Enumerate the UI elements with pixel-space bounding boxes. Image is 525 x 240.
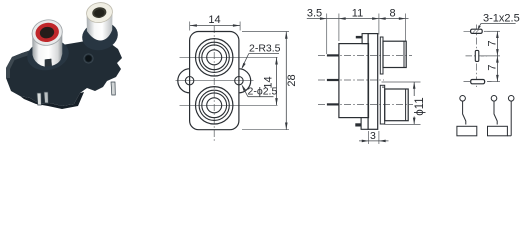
svg-text:ϕ11: ϕ11 [414,97,426,115]
photo body lower shade [20,92,84,109]
white jack hole inner dark [94,8,106,17]
white jack shell (cylinder) [87,11,113,41]
label 2-R3.5 leader [241,54,279,70]
dim 14 top: arrows [190,24,240,27]
side dim ext line barrel tip [405,14,407,42]
svg-text:8: 8 [389,8,395,20]
svg-text:7: 7 [486,40,498,46]
bottom jack circle inner [207,98,222,113]
front body rounded rect [190,32,239,130]
phi11 text (rotated) [413,96,425,117]
side pin 3 (solid) [327,103,339,105]
label 3-1x2.5 underline [481,23,516,25]
bottom jack circle outer [196,87,233,124]
side top barrel tip line [403,41,405,67]
terminal circle 3 [508,96,514,102]
wire 3 [510,101,512,136]
svg-text:3.5: 3.5 [307,8,322,20]
top jack circle outer [196,39,233,76]
photo center hole rim [84,54,93,63]
side dim ext line body left [338,14,340,42]
white jack hole [91,6,107,19]
side T-stub (solid) [356,36,362,39]
side body rect [339,44,369,118]
pin layout horizontal centerline pin2 [466,55,488,57]
pin3 cross-section (flat) [471,80,485,84]
right mounting hole [235,77,243,85]
side pin 2 (solid) [327,79,339,81]
pin1 cross-section (flat) [471,29,483,33]
svg-text:3-1x2.5: 3-1x2.5 [483,13,520,25]
phi11 ext line top [382,81,421,83]
dim 28 right arrows [285,32,288,130]
phi11 dim line [413,82,415,124]
photo boss / collar under white jack [79,19,120,54]
side top barrel [383,41,406,67]
centerline horizontal bottom circle / ext line 14 [180,104,278,106]
red jack bottom notch [45,59,52,67]
dim 7 ext lines [484,30,500,32]
dim 28 right: ext lines [242,31,289,33]
dim 3 bottom dim line [359,140,389,142]
centerline vertical left hole [189,71,191,92]
pin layout horizontal centerline pin1 [464,30,491,32]
centerline vertical right hole [238,71,240,92]
photo body top edge highlight [12,50,33,60]
dim 14 top: dim line [190,25,240,27]
side dim ext line flange right [378,14,380,35]
dim 14 right arrows [275,57,278,105]
side centerline pin3 [318,103,418,105]
top jack circle ring2 [199,42,229,72]
red jack red ring [34,21,61,44]
centerline vertical front view [213,26,215,143]
side post below body [361,118,368,130]
left mounting hole [185,77,193,85]
switch wire 2 [494,101,497,124]
dim 3 arrows (outside) [362,140,369,143]
side bottom barrel [385,89,409,121]
svg-text:2-R3.5: 2-R3.5 [249,43,281,55]
side post nub (solid) [355,123,361,126]
centerline horizontal ears [176,80,254,82]
pin2 cross-section (vertical) [475,50,479,61]
jack box 1 [457,126,477,136]
side centerline pin2 [318,79,384,81]
side bottom collar inner step [382,86,385,88]
top jack circle inner [207,50,222,65]
photo body (black plastic base plate) [6,39,122,106]
side bottom collar [380,85,384,124]
svg-text:11: 11 [352,8,363,20]
pin layout horizontal centerline pin3 [464,81,492,83]
dim 7 arrows [496,31,499,38]
pin1 hatch [473,30,479,33]
svg-text:3: 3 [370,130,376,142]
side dim line top [307,18,409,20]
photo pin 3 [111,82,115,95]
jack box 2 [488,126,508,136]
phi11 ext line bottom [384,123,421,125]
side flange plate [368,34,378,130]
side dim ext line pin tip [326,14,328,55]
switch wire 1 [463,101,466,124]
terminal circle 2 [491,96,497,102]
label leader [479,24,481,28]
dim 7 dim line (vertical) [496,31,498,81]
left ear arc [178,69,190,93]
side centerline pin1 [318,54,412,56]
side tab box on top [362,34,368,44]
dim 3 bottom ext lines [368,131,370,144]
red jack metal rim [30,17,65,48]
photo body left face highlight [6,57,15,78]
red jack shell (cylinder) [32,31,62,67]
side pin 1 (solid) [327,54,339,56]
photo center hole in plate [85,55,91,61]
white jack top ring (ivory insulator) [85,1,114,25]
label 2-phi2.5 leader [242,84,274,96]
svg-text:14: 14 [208,14,220,26]
right ear arc [239,69,251,93]
box2 bottom extension to wire 3 [507,135,511,137]
svg-text:28: 28 [286,74,298,86]
pin layout vertical centerline [475,25,477,88]
dim 28 right: dim line [285,32,287,130]
dim 14 right: dim line [276,57,278,105]
photo pin 2 [44,92,48,103]
svg-text:7: 7 [487,64,499,70]
terminal circle 1 [460,96,466,102]
bottom jack circle ring2 [199,90,229,120]
dim 14 top: ext lines [189,22,191,31]
bottom jack circle ring3 [202,93,227,118]
top jack circle ring3 [202,45,227,70]
side dim arrows [320,17,327,20]
centerline horizontal top circle / ext line 14 [180,56,278,58]
side bottom barrel tip line [405,89,407,121]
red jack hole [39,26,55,40]
photo boss under red jack [24,36,71,74]
svg-text:2-ϕ2.5: 2-ϕ2.5 [248,86,278,98]
side top collar [380,37,383,74]
photo pin 1 [37,93,41,105]
